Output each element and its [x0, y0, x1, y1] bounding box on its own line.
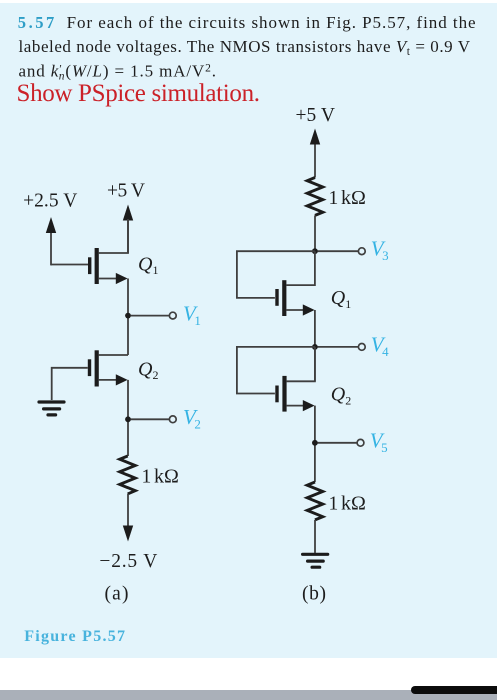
wire drain Q2 (b)	[287, 347, 315, 381]
svg-text:V1: V1	[183, 301, 201, 328]
supply arrow +5 V (a)	[123, 205, 133, 254]
terminal circle V3	[358, 248, 365, 255]
supply arrow -2.5 V	[123, 526, 133, 542]
resistor 1 kOhm (a)	[120, 456, 136, 494]
svg-text:Q1: Q1	[138, 253, 158, 276]
svg-text:For each of the circuits shown: For each of the circuits shown in Fig. P…	[67, 13, 476, 32]
svg-text:Q2: Q2	[331, 383, 351, 407]
wire gate feedback Q1 (b)	[237, 251, 315, 298]
wire gate feedback Q2 (b)	[237, 347, 315, 394]
wire node V3 tap	[318, 250, 359, 252]
resistor 1 kOhm bottom (b)	[307, 482, 323, 520]
terminal circle V5	[357, 439, 364, 446]
svg-text:+2.5 V: +2.5 V	[23, 191, 77, 212]
wire source Q2 to resistor (b)	[314, 406, 316, 482]
node V4 dot	[312, 344, 318, 350]
svg-text:1: 1	[329, 493, 339, 514]
svg-text:(a): (a)	[105, 584, 129, 605]
node V5 dot	[312, 440, 318, 446]
wire node V1 tap	[131, 315, 170, 317]
svg-text:Q1: Q1	[331, 287, 351, 311]
svg-text:kΩ: kΩ	[154, 466, 179, 488]
svg-text:+5 V: +5 V	[107, 181, 145, 202]
wire source Q2 to resistor (a)	[127, 380, 129, 456]
terminal circle V4	[358, 344, 365, 351]
wire gate Q2 to ground (a)	[52, 368, 88, 400]
node V2 dot	[125, 416, 131, 422]
svg-text:kΩ: kΩ	[341, 187, 366, 209]
svg-text:Show PSpice simulation.: Show PSpice simulation.	[17, 80, 261, 107]
resistor 1 kOhm top (b)	[307, 178, 323, 216]
wire resistor to -2.5 V arrow (a)	[127, 494, 129, 527]
wire resistor to ground (b)	[314, 520, 316, 553]
wire node V4 tap	[318, 346, 359, 348]
svg-text:kΩ: kΩ	[341, 492, 366, 514]
supply arrow +5 V (b)	[310, 129, 320, 178]
svg-text:1: 1	[142, 467, 152, 488]
wire node V2 tap	[131, 418, 170, 420]
wire drain Q2 (a)	[99, 354, 128, 356]
svg-text:V5: V5	[370, 429, 388, 456]
svg-text:Figure P5.57: Figure P5.57	[24, 628, 125, 645]
svg-text:V3: V3	[371, 237, 389, 264]
transistor Q1 (a)	[88, 248, 128, 284]
svg-text:−2.5 V: −2.5 V	[99, 551, 157, 572]
ground (b)	[303, 554, 328, 567]
wire node V5 tap	[318, 442, 358, 444]
wire gate Q1 (a)	[51, 264, 88, 266]
svg-text:(b): (b)	[302, 584, 326, 605]
terminal circle V1	[169, 312, 176, 319]
svg-text:V4: V4	[371, 332, 389, 359]
wire source Q1 to drain Q2 (a)	[127, 279, 129, 356]
svg-text:+5 V: +5 V	[296, 105, 336, 126]
ground (a)	[39, 402, 64, 415]
svg-text:Q2: Q2	[138, 359, 158, 382]
node V1 dot	[125, 313, 131, 319]
svg-text:V2: V2	[183, 405, 201, 432]
wire drain Q1 (a)	[99, 219, 128, 253]
transistor Q2 (b)	[275, 376, 314, 412]
svg-text:labeled node voltages. The NMO: labeled node voltages. The NMOS transist…	[19, 37, 471, 58]
supply arrow +2.5 V	[46, 217, 56, 265]
svg-text:5.57: 5.57	[18, 13, 55, 32]
transistor Q1 (b)	[275, 280, 314, 316]
terminal circle V2	[169, 416, 176, 423]
wire resistor to node V3	[314, 215, 316, 251]
wire source Q1 to node V4 (b)	[314, 310, 316, 381]
transistor Q2 (a)	[88, 350, 128, 386]
node V3 dot	[312, 248, 318, 254]
svg-text:1: 1	[329, 188, 339, 209]
wire drain Q1 (b)	[286, 251, 315, 285]
